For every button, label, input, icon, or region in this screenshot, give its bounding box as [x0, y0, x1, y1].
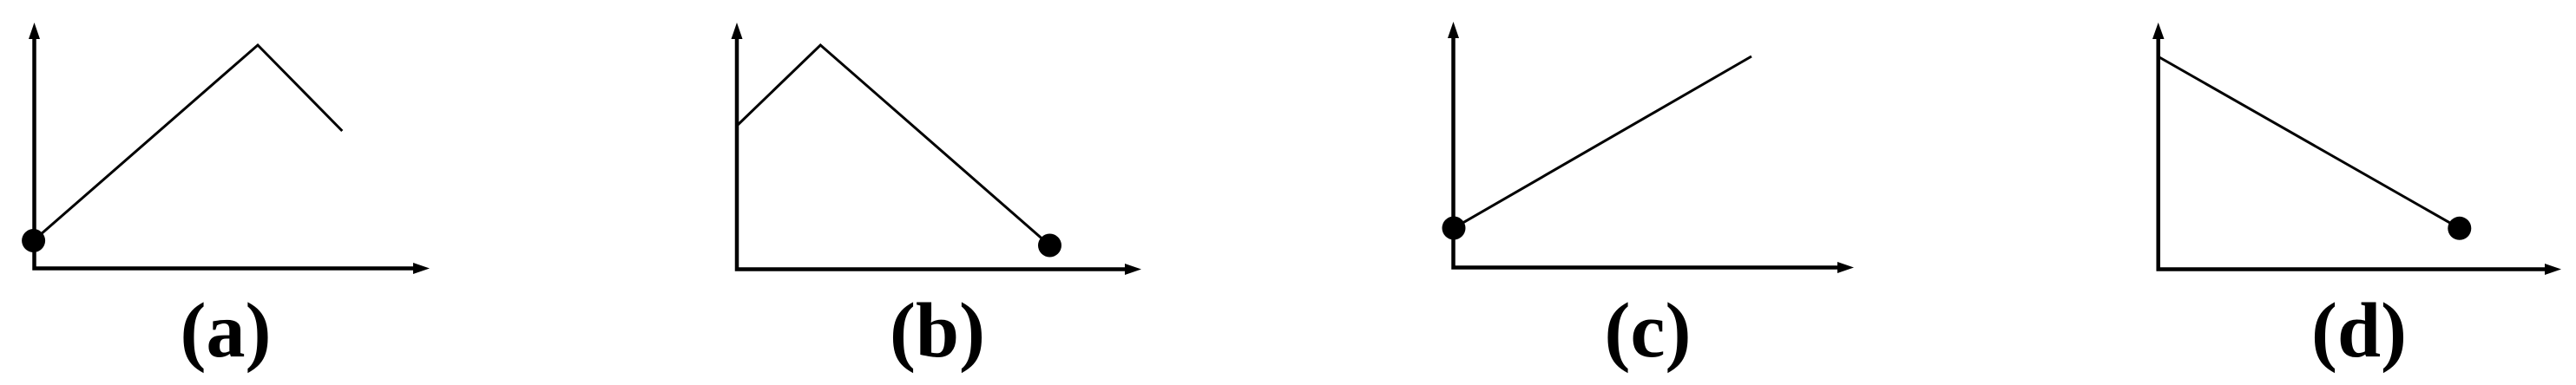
panel (a) x-axis arrowhead [413, 263, 430, 274]
svg-text:(d): (d) [2311, 288, 2407, 374]
panel (b) x-axis arrowhead [1125, 264, 1141, 275]
panel (a) axes (y-axis and x-axis) [35, 35, 417, 269]
svg-text:(a): (a) [181, 288, 272, 374]
panel (c) initial point dot [1442, 217, 1466, 240]
panel (c) curve: straight rising line [1454, 56, 1751, 228]
panel (c) axes (y-axis and x-axis) [1454, 35, 1841, 268]
panel (d) y-axis arrowhead [2152, 23, 2165, 39]
panel (b) end point dot [1038, 234, 1061, 258]
panel (d) curve: straight falling line from y-axis [2159, 57, 2460, 229]
svg-text:(b): (b) [890, 288, 985, 374]
panel (c) x-axis arrowhead [1837, 262, 1854, 273]
panel (d) end point dot [2448, 217, 2471, 240]
panel (a) curve: rising segment then falling segment [34, 45, 343, 241]
panel (b) curve: rises from y-axis to peak then falls to endpoint [737, 45, 1050, 245]
panel (a) initial point dot [22, 229, 45, 252]
panel (d) x-axis arrowhead [2545, 264, 2561, 275]
panel (b) y-axis arrowhead [732, 23, 743, 39]
panel (a) y-axis arrowhead [29, 23, 40, 39]
panel (d) axes (y-axis and x-axis) [2159, 35, 2547, 270]
svg-text:(c): (c) [1605, 288, 1692, 374]
panel (b) axes (y-axis and x-axis) [737, 35, 1127, 270]
panel (c) y-axis arrowhead [1448, 22, 1459, 38]
